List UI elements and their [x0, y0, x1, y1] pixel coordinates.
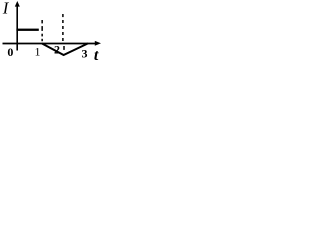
y-axis arrowhead — [15, 1, 20, 7]
x-axis (t axis) — [3, 43, 98, 45]
svg-text:t: t — [94, 47, 99, 64]
x-axis arrowhead — [95, 41, 101, 46]
svg-text:1: 1 — [35, 45, 41, 59]
pulse segment I=1 from t=0 to t=1 — [16, 29, 38, 31]
triangle dip waveform t=1..3 — [42, 43, 88, 55]
svg-text:2: 2 — [54, 42, 60, 56]
svg-text:0: 0 — [7, 45, 13, 59]
svg-text:3: 3 — [82, 46, 88, 60]
y-axis (I axis) — [16, 4, 18, 51]
dashed guide at t=1 — [41, 20, 43, 41]
dashed guide at t=2 — [63, 14, 64, 50]
background — [0, 0, 102, 82]
